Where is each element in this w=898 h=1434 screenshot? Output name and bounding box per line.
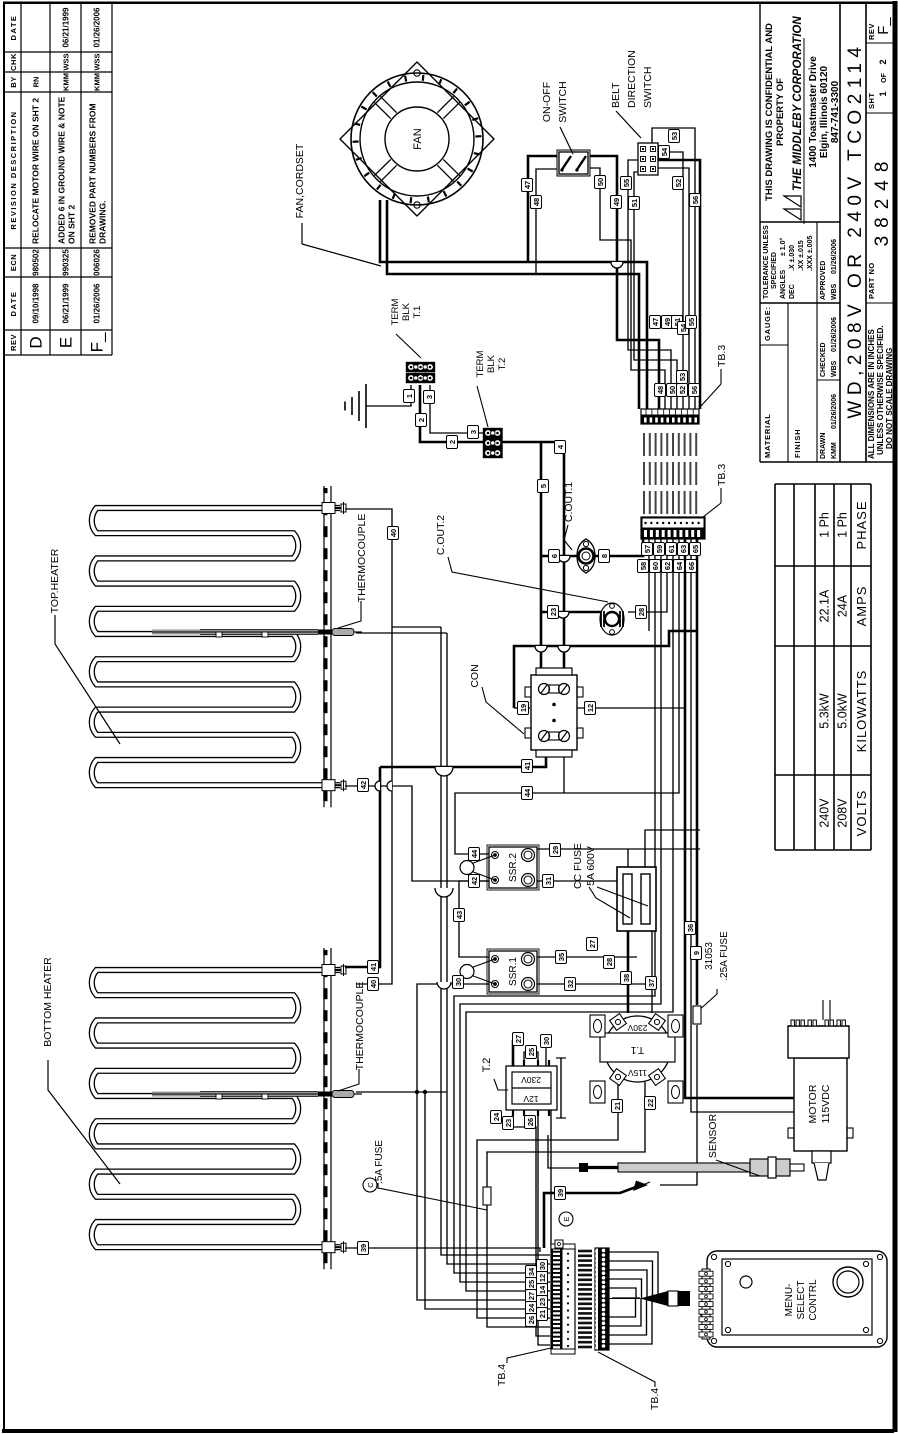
svg-text:TB.4: TB.4	[496, 1364, 508, 1386]
svg-text:53: 53	[670, 132, 679, 140]
svg-text:60: 60	[651, 562, 660, 570]
svg-text:OF: OF	[881, 72, 888, 82]
svg-text:847-741-3300: 847-741-3300	[830, 80, 841, 143]
svg-text:21: 21	[538, 1310, 547, 1318]
svg-text:14: 14	[538, 1285, 547, 1294]
svg-text:.X ±.030: .X ±.030	[789, 245, 796, 271]
svg-text:.25A FUSE: .25A FUSE	[719, 931, 730, 981]
svg-text:THERMOCOUPLE: THERMOCOUPLE	[354, 982, 366, 1071]
svg-text:42: 42	[359, 781, 368, 789]
svg-text:TOLERANCE UNLESS: TOLERANCE UNLESS	[763, 225, 770, 299]
svg-text:WSS: WSS	[93, 53, 102, 70]
svg-text:09/10/1998: 09/10/1998	[32, 283, 41, 324]
svg-text:8: 8	[600, 554, 609, 558]
svg-text:ON SHT 2: ON SHT 2	[67, 205, 77, 244]
svg-text:23: 23	[504, 1119, 513, 1127]
svg-text:51: 51	[630, 199, 639, 207]
svg-text:DATE: DATE	[9, 291, 18, 317]
svg-text:115VDC: 115VDC	[820, 1084, 832, 1123]
svg-text:35: 35	[557, 953, 566, 961]
svg-text:9: 9	[692, 951, 701, 955]
svg-text:1: 1	[878, 91, 888, 96]
svg-text:T.2: T.2	[497, 358, 508, 371]
svg-text:BELT: BELT	[610, 82, 622, 108]
svg-text:37: 37	[647, 979, 656, 987]
svg-text:50: 50	[668, 386, 677, 394]
svg-text:PHASE: PHASE	[854, 500, 869, 549]
svg-text:ON-OFF: ON-OFF	[541, 82, 553, 122]
svg-text:230V: 230V	[627, 1023, 647, 1033]
svg-text:62: 62	[663, 562, 672, 570]
svg-text:41: 41	[369, 963, 378, 971]
svg-text:24A: 24A	[836, 594, 850, 617]
svg-text:VOLTS: VOLTS	[854, 790, 869, 837]
svg-text:F_: F_	[88, 332, 107, 352]
svg-text:KMM: KMM	[93, 73, 102, 91]
svg-text:48: 48	[656, 386, 665, 394]
svg-text:52: 52	[678, 386, 687, 394]
svg-text:E: E	[562, 1216, 571, 1221]
svg-text:E: E	[57, 337, 76, 348]
svg-text:SENSOR: SENSOR	[707, 1113, 719, 1158]
svg-text:ADDED 6 IN GROUND WIRE & NOTE: ADDED 6 IN GROUND WIRE & NOTE	[57, 96, 67, 244]
svg-text:SWITCH: SWITCH	[557, 81, 569, 122]
svg-text:BY: BY	[9, 76, 18, 87]
svg-text:PART NO: PART NO	[867, 262, 876, 299]
svg-text:61: 61	[667, 545, 676, 553]
svg-text:D: D	[27, 336, 46, 348]
svg-text:06/21/1999: 06/21/1999	[62, 283, 71, 324]
svg-text:TERM: TERM	[390, 298, 401, 325]
svg-text:64: 64	[675, 561, 684, 570]
svg-text:T.1: T.1	[412, 306, 423, 319]
svg-text:230V: 230V	[521, 1075, 541, 1085]
svg-text:6: 6	[550, 554, 559, 558]
svg-text:UNLESS OTHERWISE SPECIFIED.: UNLESS OTHERWISE SPECIFIED.	[876, 325, 885, 455]
svg-text:SPECIFIED: SPECIFIED	[771, 252, 778, 289]
svg-text:MATERIAL: MATERIAL	[763, 413, 772, 458]
svg-text:115V: 115V	[628, 1068, 648, 1078]
svg-text:31053: 31053	[704, 942, 715, 970]
svg-text:39: 39	[556, 1189, 565, 1197]
svg-text:43: 43	[455, 911, 464, 919]
svg-text:WBS: WBS	[831, 360, 838, 377]
svg-text:TERM: TERM	[475, 350, 486, 377]
svg-text:C.OUT.1: C.OUT.1	[563, 482, 575, 522]
svg-text:66: 66	[687, 562, 696, 570]
svg-text:26: 26	[526, 1118, 535, 1126]
svg-text:27: 27	[527, 1292, 536, 1300]
svg-text:.XX ±.015: .XX ±.015	[798, 240, 805, 271]
svg-text:50: 50	[596, 178, 605, 186]
svg-text:ECN: ECN	[9, 254, 18, 271]
svg-text:56: 56	[691, 196, 700, 204]
svg-text:ALL DIMENSIONS ARE IN INCHES: ALL DIMENSIONS ARE IN INCHES	[867, 329, 876, 459]
svg-text:ANGLES: ANGLES	[780, 270, 787, 300]
svg-text:SSR.2: SSR.2	[508, 853, 519, 882]
svg-text:TB.4: TB.4	[649, 1388, 661, 1410]
svg-text:5A 600V: 5A 600V	[585, 846, 597, 886]
svg-text:40: 40	[389, 529, 398, 537]
svg-text:006026: 006026	[93, 249, 102, 276]
svg-text:208V: 208V	[836, 798, 850, 828]
svg-text:AMPS: AMPS	[854, 586, 869, 627]
svg-text:RN: RN	[32, 77, 41, 88]
svg-text:TB.3: TB.3	[716, 464, 728, 486]
svg-text:CONTRL: CONTRL	[808, 1279, 819, 1321]
svg-text:THIS DRAWING IS CONFIDENTIAL A: THIS DRAWING IS CONFIDENTIAL AND	[764, 23, 775, 201]
svg-text:54: 54	[660, 147, 669, 156]
svg-text:1 Ph: 1 Ph	[836, 512, 850, 538]
svg-text:01/26/2006: 01/26/2006	[831, 394, 838, 429]
svg-text:55: 55	[687, 318, 696, 326]
svg-text:30: 30	[454, 978, 463, 986]
svg-text:PROPERTY OF: PROPERTY OF	[775, 78, 786, 146]
svg-text:30: 30	[538, 1262, 547, 1270]
svg-text:MOTOR: MOTOR	[807, 1084, 819, 1123]
svg-text:28: 28	[605, 958, 614, 966]
svg-text:CON: CON	[469, 664, 481, 687]
svg-text:SELECT: SELECT	[796, 1281, 807, 1320]
svg-text:240V: 240V	[818, 798, 832, 828]
svg-text:49: 49	[612, 198, 621, 206]
svg-text:WD,208V OR 240V TCO2114: WD,208V OR 240V TCO2114	[845, 41, 866, 418]
svg-text:34: 34	[527, 1267, 536, 1276]
svg-text:2: 2	[878, 59, 888, 64]
svg-text:23: 23	[538, 1298, 547, 1306]
svg-text:06/21/1999: 06/21/1999	[62, 7, 71, 48]
svg-text:DRAWING.: DRAWING.	[98, 201, 108, 244]
svg-text:47: 47	[523, 181, 532, 189]
svg-text:FAN: FAN	[412, 128, 424, 149]
svg-text:THERMOCOUPLE: THERMOCOUPLE	[356, 514, 368, 603]
svg-text:12: 12	[538, 1274, 547, 1282]
svg-text:55: 55	[622, 179, 631, 187]
svg-text:WBS: WBS	[831, 283, 838, 300]
svg-text:.5A FUSE: .5A FUSE	[374, 1140, 385, 1184]
svg-text:27: 27	[514, 1035, 523, 1043]
svg-text:1400 Toastmaster Drive: 1400 Toastmaster Drive	[808, 56, 819, 168]
svg-text:59: 59	[655, 545, 664, 553]
svg-text:32: 32	[566, 980, 575, 988]
svg-text:56: 56	[690, 386, 699, 394]
svg-text:.XXX ±.005: .XXX ±.005	[807, 236, 814, 271]
svg-text:57: 57	[643, 545, 652, 553]
svg-text:Elgin, Illinois 60120: Elgin, Illinois 60120	[819, 65, 830, 158]
svg-text:980502: 980502	[32, 249, 41, 276]
svg-text:CHK: CHK	[9, 53, 18, 71]
svg-text:47: 47	[651, 318, 660, 326]
svg-text:58: 58	[639, 562, 648, 570]
svg-text:CC FUSE: CC FUSE	[572, 843, 584, 889]
svg-text:26: 26	[527, 1316, 536, 1324]
svg-text:53: 53	[678, 373, 687, 381]
svg-text:24: 24	[527, 1303, 536, 1312]
svg-text:22: 22	[646, 1099, 655, 1107]
svg-text:KILOWATTS: KILOWATTS	[854, 670, 869, 753]
svg-text:29: 29	[551, 846, 560, 854]
svg-text:2: 2	[448, 440, 457, 444]
svg-text:22.1A: 22.1A	[818, 589, 832, 622]
svg-text:23: 23	[549, 608, 558, 616]
svg-text:42: 42	[470, 877, 479, 885]
svg-text:01/26/2006: 01/26/2006	[831, 239, 838, 274]
svg-text:DIRECTION: DIRECTION	[626, 50, 638, 108]
svg-text:41: 41	[523, 762, 532, 770]
svg-text:DRAWN: DRAWN	[820, 433, 827, 459]
svg-text:12: 12	[586, 704, 595, 712]
svg-text:52: 52	[674, 179, 683, 187]
svg-text:GAUGE:: GAUGE:	[763, 306, 772, 341]
svg-text:21: 21	[613, 1102, 622, 1110]
svg-text:30: 30	[542, 1037, 551, 1045]
svg-text:± 1.0°: ± 1.0°	[779, 237, 787, 256]
svg-text:36: 36	[686, 924, 695, 932]
svg-text:1 Ph: 1 Ph	[818, 512, 832, 538]
svg-text:40: 40	[369, 980, 378, 988]
svg-text:01/26/2006: 01/26/2006	[831, 317, 838, 352]
svg-text:TB.3: TB.3	[716, 345, 728, 367]
svg-text:REV: REV	[9, 334, 18, 351]
svg-text:1: 1	[405, 394, 414, 398]
svg-text:01/26/2006: 01/26/2006	[93, 283, 102, 324]
svg-text:38248: 38248	[872, 154, 893, 247]
svg-text:25: 25	[527, 1048, 536, 1056]
svg-text:SSR.1: SSR.1	[508, 957, 519, 986]
svg-text:24: 24	[492, 1112, 501, 1121]
svg-text:5: 5	[539, 484, 548, 488]
svg-text:63: 63	[679, 545, 688, 553]
svg-text:RELOCATE MOTOR WIRE ON SHT 2: RELOCATE MOTOR WIRE ON SHT 2	[31, 98, 41, 244]
svg-text:2: 2	[417, 418, 426, 422]
svg-text:F_: F_	[875, 17, 892, 35]
svg-text:FINISH: FINISH	[793, 429, 802, 458]
svg-text:BOTTOM HEATER: BOTTOM HEATER	[42, 957, 54, 1047]
svg-text:5.0kW: 5.0kW	[836, 693, 850, 729]
svg-text:DEC: DEC	[789, 284, 796, 299]
svg-text:44: 44	[523, 788, 532, 797]
svg-text:SWITCH: SWITCH	[642, 67, 654, 108]
svg-text:THE MIDDLEBY CORPORATION: THE MIDDLEBY CORPORATION	[792, 16, 804, 191]
svg-text:31: 31	[544, 877, 553, 885]
svg-text:65: 65	[691, 545, 700, 553]
svg-text:5.3kW: 5.3kW	[818, 693, 832, 729]
svg-text:DO NOT SCALE DRAWING: DO NOT SCALE DRAWING	[885, 348, 894, 449]
svg-text:27: 27	[588, 940, 597, 948]
svg-text:T.1: T.1	[630, 1044, 644, 1055]
svg-text:KMM: KMM	[831, 442, 838, 459]
svg-text:25: 25	[527, 1280, 536, 1288]
svg-text:KMM: KMM	[62, 73, 71, 91]
svg-text:48: 48	[532, 198, 541, 206]
svg-text:C.OUT.2: C.OUT.2	[435, 515, 447, 555]
svg-text:DATE: DATE	[9, 15, 18, 41]
svg-text:01/26/2006: 01/26/2006	[93, 7, 102, 48]
svg-text:38: 38	[622, 974, 631, 982]
svg-text:44: 44	[470, 849, 479, 858]
svg-text:T.2: T.2	[481, 1058, 493, 1073]
svg-text:CHECKED: CHECKED	[820, 342, 827, 377]
svg-text:49: 49	[663, 318, 672, 326]
svg-text:BLK: BLK	[401, 302, 412, 321]
svg-text:FAN,CORDSET: FAN,CORDSET	[294, 143, 306, 218]
svg-text:APPROVED: APPROVED	[820, 261, 827, 300]
svg-text:19: 19	[519, 704, 528, 712]
svg-text:WSS: WSS	[62, 53, 71, 70]
svg-text:39: 39	[359, 1244, 368, 1252]
svg-text:MENU-: MENU-	[784, 1284, 795, 1317]
svg-text:3: 3	[469, 430, 478, 434]
svg-text:28: 28	[637, 608, 646, 616]
svg-text:REVISION DESCRIPTION: REVISION DESCRIPTION	[9, 110, 18, 229]
svg-text:TOP.HEATER: TOP.HEATER	[49, 548, 61, 613]
svg-text:3: 3	[425, 395, 434, 399]
svg-text:REMOVED PART NUMBERS FROM: REMOVED PART NUMBERS FROM	[88, 103, 98, 244]
svg-text:990325: 990325	[62, 249, 71, 276]
svg-text:12V: 12V	[523, 1094, 538, 1104]
svg-text:SHT: SHT	[867, 93, 876, 110]
svg-text:BLK: BLK	[486, 354, 497, 373]
